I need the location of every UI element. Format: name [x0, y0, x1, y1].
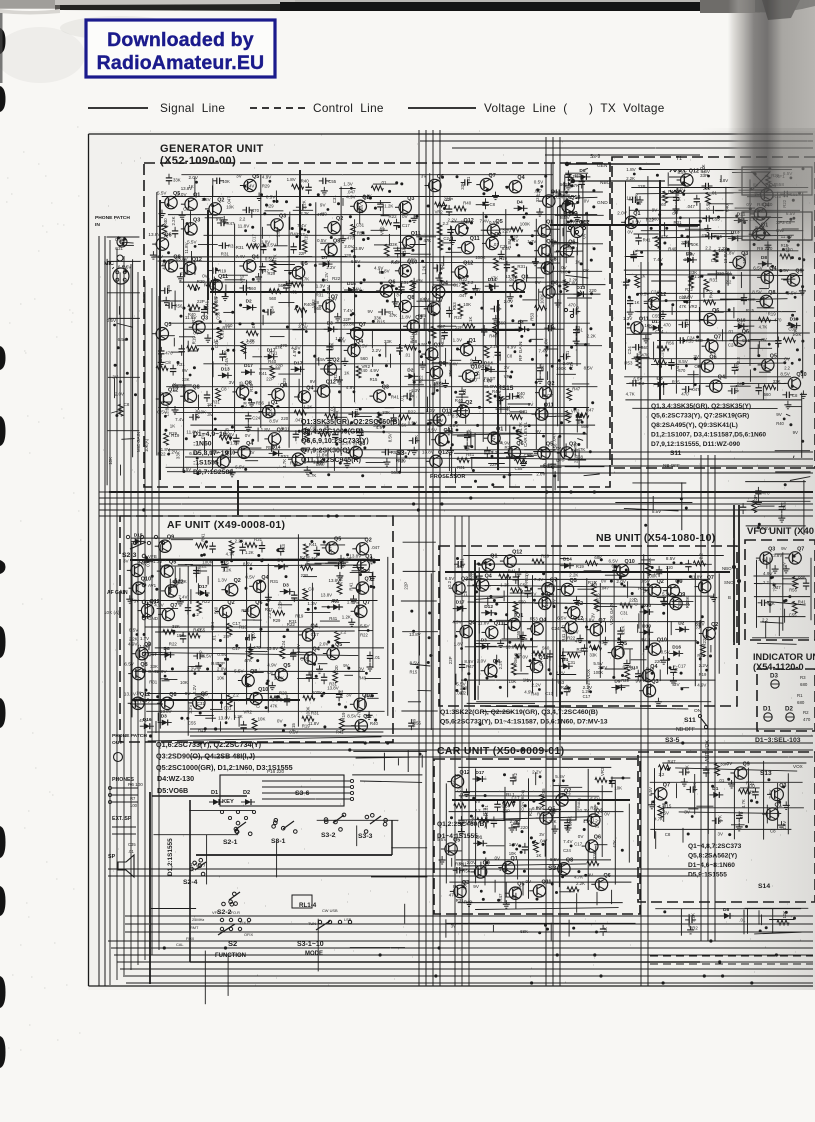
svg-text:Control Line: Control Line [313, 101, 384, 115]
svg-text:Downloaded by: Downloaded by [107, 29, 254, 51]
svg-text:RadioAmateur.EU: RadioAmateur.EU [97, 52, 265, 74]
svg-text:Signal Line: Signal Line [160, 101, 225, 115]
svg-text:Voltage Line ( ) TX V: Voltage Line ( ) TX Voltage [484, 101, 665, 115]
